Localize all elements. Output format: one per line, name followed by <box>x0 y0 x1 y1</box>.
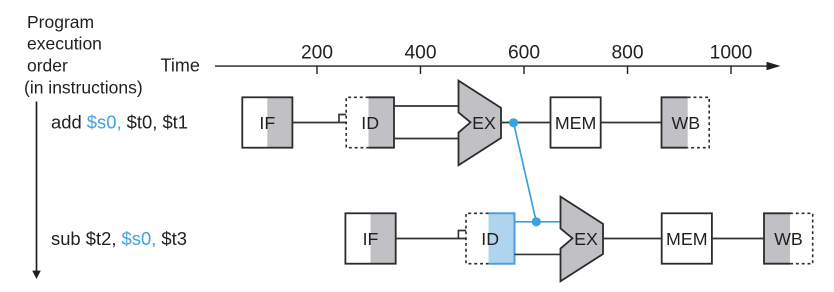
svg-text:MEM: MEM <box>555 113 596 133</box>
tick labels <box>301 42 752 63</box>
wire EX->MEM (add) <box>501 122 551 124</box>
svg-text:ID: ID <box>361 113 379 133</box>
svg-text:sub $t2, $s0, $t3: sub $t2, $s0, $t3 <box>51 228 187 249</box>
stage box ID (sub): dashed left half, blue highlighted right half <box>466 213 515 263</box>
svg-text:ID: ID <box>481 229 499 249</box>
wire ID->EX upper, forwarded value (sub, blue) <box>515 221 562 223</box>
svg-text:600: 600 <box>508 42 540 63</box>
svg-text:WB: WB <box>774 229 803 249</box>
tick 1000 <box>730 66 732 74</box>
wire EX->MEM (sub) <box>603 238 662 240</box>
svg-text:(in instructions): (in instructions) <box>24 78 143 98</box>
svg-text:Program: Program <box>27 12 94 32</box>
node: forward into EX(sub) (blue dot) <box>532 217 541 226</box>
svg-text:EX: EX <box>472 113 496 133</box>
stage box MEM (sub) <box>662 213 712 263</box>
svg-text:IF: IF <box>259 113 275 133</box>
wire MEM->WB (sub) <box>712 238 764 240</box>
pipeline-register notch (sub ID) <box>458 231 466 239</box>
wire IF->ID (add) <box>292 122 346 124</box>
stage box WB (sub): gray solid left half, dashed right half <box>764 213 813 263</box>
tick 800 <box>627 66 629 74</box>
time axis <box>215 62 781 71</box>
node: EX(add) output (blue dot) <box>509 118 518 127</box>
forwarding line (blue diagonal) <box>514 123 537 222</box>
svg-text:MEM: MEM <box>666 229 707 249</box>
stage box IF (add) <box>242 97 292 147</box>
program-order arrow (vertical) <box>32 102 41 280</box>
label: Program execution order (in instructions) <box>24 12 143 98</box>
svg-text:800: 800 <box>611 42 643 63</box>
wire IF->ID (sub) <box>396 238 466 240</box>
stage box ID (add): dashed left half, gray right half <box>346 97 394 147</box>
wire ID->EX lower (sub) <box>515 253 562 255</box>
tick 600 <box>523 66 525 74</box>
tick 400 <box>420 66 422 74</box>
wire ID->EX upper (add) <box>394 105 459 107</box>
stage ALU EX (sub) <box>561 197 604 282</box>
stage box WB (add): gray solid left half, dashed right half <box>662 97 710 147</box>
wire ID->EX lower (add) <box>394 138 459 140</box>
stage box MEM (add) <box>551 97 601 147</box>
svg-text:Time: Time <box>161 56 200 76</box>
wire MEM->WB (add) <box>601 122 662 124</box>
svg-text:1000: 1000 <box>710 42 753 63</box>
stage ALU EX (add) <box>459 81 502 166</box>
stage box IF (sub) <box>345 213 395 263</box>
svg-text:WB: WB <box>671 113 700 133</box>
svg-text:200: 200 <box>301 42 333 63</box>
svg-text:add $s0, $t0, $t1: add $s0, $t0, $t1 <box>51 111 188 132</box>
svg-text:order: order <box>27 56 68 76</box>
tick 200 <box>316 66 318 74</box>
svg-text:EX: EX <box>574 229 598 249</box>
svg-text:execution: execution <box>27 33 102 53</box>
svg-text:IF: IF <box>363 229 379 249</box>
svg-text:400: 400 <box>404 42 436 63</box>
pipeline-register notch (add ID) <box>339 115 346 123</box>
